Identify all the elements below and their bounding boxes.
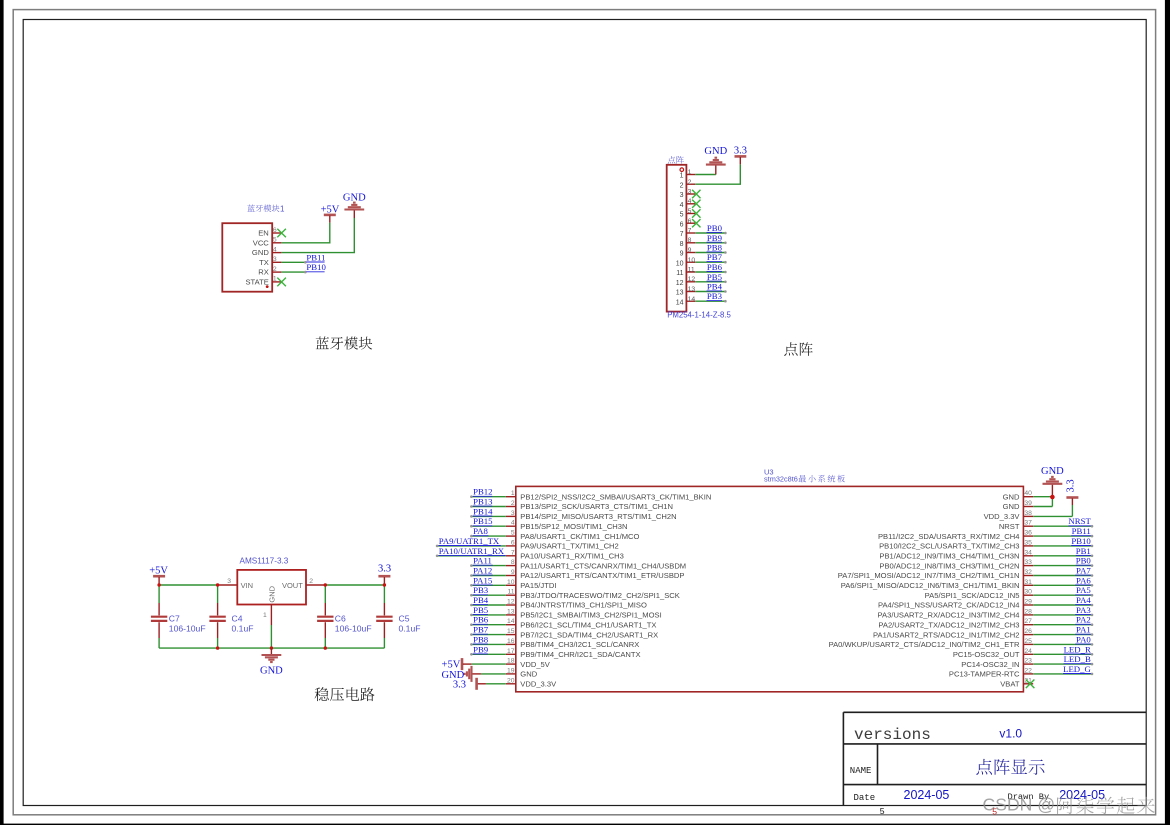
svg-text:NRST: NRST bbox=[1068, 516, 1091, 526]
svg-text:PB8: PB8 bbox=[707, 243, 723, 253]
wire +5V rail to VIN bbox=[159, 584, 217, 586]
svg-text:PB9/TIM4_CHR/I2C1_SDA/CANTX: PB9/TIM4_CHR/I2C1_SDA/CANTX bbox=[520, 650, 640, 659]
svg-text:PA11: PA11 bbox=[473, 556, 492, 566]
svg-text:11: 11 bbox=[676, 270, 683, 277]
U3 pin 39 (GND) bbox=[1003, 497, 1053, 511]
U3 pin 2 wire and net label PB13 bbox=[470, 497, 673, 512]
U3 body bbox=[516, 486, 1024, 691]
svg-text:12: 12 bbox=[507, 599, 515, 606]
svg-text:18: 18 bbox=[507, 658, 515, 665]
svg-text:13: 13 bbox=[688, 286, 696, 293]
svg-text:v1.0: v1.0 bbox=[999, 726, 1022, 740]
svg-text:PA6: PA6 bbox=[1076, 575, 1091, 585]
svg-text:14: 14 bbox=[676, 299, 684, 306]
capacitor C7 106-10uF bbox=[151, 585, 206, 648]
svg-text:PB7: PB7 bbox=[473, 625, 489, 635]
svg-text:1: 1 bbox=[263, 612, 267, 619]
svg-text:4: 4 bbox=[680, 202, 684, 209]
svg-text:1: 1 bbox=[688, 169, 692, 176]
svg-text:1: 1 bbox=[680, 173, 684, 180]
点阵 pin 1 bbox=[680, 169, 696, 180]
svg-text:GND: GND bbox=[704, 146, 727, 157]
U3 pin 4 wire and net label PB15 bbox=[470, 516, 627, 531]
ground symbol GND (dot matrix) bbox=[704, 146, 727, 174]
no-connect X on STATE bbox=[277, 278, 286, 287]
svg-text:PB6: PB6 bbox=[707, 262, 723, 272]
U3 pin 10 wire and net label PA15 bbox=[470, 575, 556, 590]
pin 3 VIN stub bbox=[217, 584, 237, 586]
svg-text:30: 30 bbox=[1024, 589, 1032, 596]
svg-text:33: 33 bbox=[1024, 559, 1032, 566]
svg-text:RX: RX bbox=[258, 268, 269, 277]
svg-text:STATE: STATE bbox=[245, 278, 268, 287]
svg-text:PB6/I2C1_SCL/TIM4_CH1/USART1_T: PB6/I2C1_SCL/TIM4_CH1/USART1_TX bbox=[520, 620, 656, 629]
U3 pin 5 wire and net label PA8 bbox=[470, 526, 639, 541]
regulator U? AMS1117-3.3 body bbox=[237, 570, 306, 605]
P1 pin 2 (RX) bbox=[258, 266, 281, 277]
svg-text:PA10/UATR1_RX: PA10/UATR1_RX bbox=[439, 546, 505, 556]
junction 3.3/C5 bbox=[383, 583, 386, 586]
svg-text:3: 3 bbox=[273, 256, 277, 263]
U3 pin 16 wire and net label PB8 bbox=[470, 634, 639, 649]
svg-text:PB5/I2C1_SMBAI/TIM3_CH2/SPI1_M: PB5/I2C1_SMBAI/TIM3_CH2/SPI1_MOSI bbox=[520, 611, 661, 620]
svg-text:PB14: PB14 bbox=[473, 506, 493, 516]
U3 pin 35 (PB10) bbox=[879, 536, 1093, 551]
power flag +5V (bluetooth) bbox=[321, 204, 340, 222]
svg-text:PB3: PB3 bbox=[707, 291, 723, 301]
svg-text:PB4/JNTRST/TIM3_CH1/SPI1_MISO: PB4/JNTRST/TIM3_CH1/SPI1_MISO bbox=[520, 601, 647, 610]
点阵 pin 8 bbox=[680, 237, 696, 248]
junction U3 GND pins bbox=[1050, 495, 1055, 500]
svg-text:9: 9 bbox=[511, 569, 515, 576]
U3 pin 9 wire and net label PA12 bbox=[470, 566, 684, 581]
点阵 pin 12 bbox=[676, 276, 696, 287]
wire and net label PB5 (点阵 pin 12) bbox=[695, 272, 726, 283]
svg-text:7: 7 bbox=[511, 549, 515, 556]
点阵 pin 2 bbox=[680, 179, 696, 190]
P1 pin 3 (TX) bbox=[259, 256, 281, 267]
svg-text:PC14-OSC32_IN: PC14-OSC32_IN bbox=[961, 660, 1019, 669]
点阵 pin 7 bbox=[680, 228, 696, 239]
svg-text:EN: EN bbox=[258, 229, 269, 238]
svg-text:PC15-OSC32_OUT: PC15-OSC32_OUT bbox=[953, 650, 1020, 659]
no-connect X on 点阵 pin 4 bbox=[692, 200, 700, 208]
点阵 pin 13 bbox=[676, 286, 696, 297]
svg-text:PA2: PA2 bbox=[1076, 615, 1091, 625]
U3 pin 7 wire and net label PA10/UATR1_RX bbox=[436, 546, 624, 561]
svg-text:10: 10 bbox=[507, 579, 515, 586]
svg-text:37: 37 bbox=[1024, 520, 1032, 527]
svg-text:+5V: +5V bbox=[321, 204, 340, 215]
wire and net label PB0 (点阵 pin 7) bbox=[695, 223, 726, 234]
label stm32c8t6最小系统板 bbox=[764, 475, 845, 484]
title block name 点阵显示 bbox=[976, 759, 1044, 775]
U3 pin 24 (LED_R) bbox=[953, 644, 1093, 659]
svg-text:9: 9 bbox=[688, 247, 692, 254]
svg-text:GND: GND bbox=[343, 193, 366, 204]
svg-text:32: 32 bbox=[1024, 569, 1032, 576]
svg-text:PA3/USART2_RX/ADC12_IN3/TIM2_C: PA3/USART2_RX/ADC12_IN3/TIM2_CH4 bbox=[878, 611, 1020, 620]
点阵 pin 3 bbox=[680, 189, 696, 200]
svg-text:14: 14 bbox=[688, 296, 696, 303]
wire pin1 to GND bbox=[695, 174, 716, 176]
P1 pin 4 (GND) bbox=[252, 246, 281, 257]
svg-text:16: 16 bbox=[507, 638, 515, 645]
label 蓝牙模块1 bbox=[247, 204, 285, 213]
svg-text:GND: GND bbox=[520, 670, 537, 679]
svg-text:PA6/SPI1_MISO/ADC12_IN6/TIM3_C: PA6/SPI1_MISO/ADC12_IN6/TIM3_CH1/TIM1_BK… bbox=[841, 581, 1020, 590]
svg-text:C6: C6 bbox=[335, 614, 346, 624]
svg-text:PA5/SPI1_SCK/ADC12_IN5: PA5/SPI1_SCK/ADC12_IN5 bbox=[925, 591, 1020, 600]
svg-text:PB0/ADC12_IN8/TIM3_CH3/TIM1_CH: PB0/ADC12_IN8/TIM3_CH3/TIM1_CH2N bbox=[879, 561, 1019, 570]
svg-text:PA4/SPI1_NSS/USART2_CK/ADC12_I: PA4/SPI1_NSS/USART2_CK/ADC12_IN4 bbox=[878, 601, 1020, 610]
wire GND pin down bbox=[270, 625, 272, 648]
svg-text:3.3: 3.3 bbox=[1066, 479, 1077, 492]
svg-text:PB11: PB11 bbox=[1072, 526, 1091, 536]
svg-text:23: 23 bbox=[1024, 658, 1032, 665]
svg-text:PC13-TAMPER-RTC: PC13-TAMPER-RTC bbox=[949, 670, 1020, 679]
U3 pin 27 (PA2) bbox=[878, 615, 1093, 630]
net label PB10 (bluetooth RX) bbox=[306, 262, 326, 272]
svg-text:GND: GND bbox=[267, 585, 276, 602]
svg-text:3.3: 3.3 bbox=[734, 146, 747, 157]
svg-text:24: 24 bbox=[1024, 648, 1032, 655]
svg-text:19: 19 bbox=[507, 667, 515, 674]
no-connect X on 点阵 pin 3 bbox=[692, 190, 700, 198]
svg-text:PA4: PA4 bbox=[1076, 595, 1091, 605]
svg-text:8: 8 bbox=[680, 241, 684, 248]
svg-text:PB11/I2C2_SDA/USART3_RX/TIM2_C: PB11/I2C2_SDA/USART3_RX/TIM2_CH4 bbox=[878, 532, 1020, 541]
P1 pin1 marker dot bbox=[266, 285, 269, 288]
svg-text:+5V: +5V bbox=[442, 660, 461, 671]
svg-text:VOUT: VOUT bbox=[282, 581, 303, 590]
watermark CSDN @阿柒学起来 bbox=[983, 794, 1155, 814]
svg-text:VDD_5V: VDD_5V bbox=[520, 660, 550, 669]
svg-text:0.1uF: 0.1uF bbox=[399, 624, 421, 634]
U3 pin 28 (PA3) bbox=[878, 605, 1094, 620]
svg-text:11: 11 bbox=[688, 267, 695, 274]
svg-text:PA5: PA5 bbox=[1076, 585, 1091, 595]
svg-text:2: 2 bbox=[273, 266, 277, 273]
power flag 3.3 (dot matrix) bbox=[734, 146, 747, 165]
U3 pin 13 wire and net label PB5 bbox=[470, 605, 662, 620]
svg-text:29: 29 bbox=[1024, 599, 1032, 606]
U3 pin 15 wire and net label PB7 bbox=[470, 625, 658, 640]
svg-text:PA9/USART1_TX/TIM1_CH2: PA9/USART1_TX/TIM1_CH2 bbox=[520, 542, 618, 551]
svg-text:31: 31 bbox=[1024, 579, 1032, 586]
svg-text:2024-05: 2024-05 bbox=[904, 788, 950, 802]
svg-text:3.3: 3.3 bbox=[378, 564, 391, 575]
svg-text:PB10: PB10 bbox=[1071, 536, 1091, 546]
svg-text:13: 13 bbox=[676, 290, 684, 297]
U3 pin 3 wire and net label PB14 bbox=[470, 506, 676, 521]
svg-text:PA1/USART2_RTS/ADC12_IN1/TIM2_: PA1/USART2_RTS/ADC12_IN1/TIM2_CH2 bbox=[873, 630, 1019, 639]
点阵 pin 5 bbox=[680, 208, 696, 219]
svg-text:106-10uF: 106-10uF bbox=[169, 624, 206, 634]
svg-text:PA7/SPI1_MOSI/ADC12_IN7/TIM3_C: PA7/SPI1_MOSI/ADC12_IN7/TIM3_CH2/TIM1_CH… bbox=[838, 571, 1020, 580]
svg-text:PB13: PB13 bbox=[473, 497, 493, 507]
svg-text:stm32c8t6: stm32c8t6 bbox=[764, 475, 798, 484]
wire and net label PB3 (点阵 pin 14) bbox=[695, 291, 726, 302]
svg-text:5: 5 bbox=[511, 530, 515, 537]
svg-text:5: 5 bbox=[273, 237, 277, 244]
wire TX net bbox=[281, 261, 305, 263]
svg-text:10: 10 bbox=[676, 260, 684, 267]
svg-text:27: 27 bbox=[1024, 618, 1032, 625]
svg-text:Date: Date bbox=[854, 793, 876, 803]
junction +5V/C7 bbox=[157, 583, 160, 586]
svg-text:VCC: VCC bbox=[253, 238, 270, 247]
svg-text:5: 5 bbox=[688, 208, 692, 215]
svg-text:PB12/SPI2_NSS/I2C2_SMBAI/USART: PB12/SPI2_NSS/I2C2_SMBAI/USART3_CK/TIM1_… bbox=[520, 492, 711, 501]
svg-text:VBAT: VBAT bbox=[1000, 680, 1020, 689]
svg-text:AMS1117-3.3: AMS1117-3.3 bbox=[240, 556, 289, 565]
section title 点阵 bbox=[784, 342, 813, 356]
svg-text:PA0/WKUP/USART2_CTS/ADC12_IN0/: PA0/WKUP/USART2_CTS/ADC12_IN0/TIM2_CH1_E… bbox=[829, 640, 1020, 649]
U3 pin 40 (GND) bbox=[1003, 490, 1053, 501]
U3 pin 17 wire and net label PB9 bbox=[470, 644, 640, 659]
wire VCC to +5V bbox=[281, 223, 329, 243]
wire RX net bbox=[281, 271, 305, 273]
svg-text:PB7: PB7 bbox=[707, 252, 723, 262]
svg-text:3: 3 bbox=[680, 192, 684, 199]
U3 pin 21 (VBAT) bbox=[1000, 677, 1034, 688]
svg-text:2: 2 bbox=[511, 500, 515, 507]
svg-text:PB11: PB11 bbox=[306, 252, 325, 262]
svg-text:5: 5 bbox=[680, 212, 684, 219]
svg-text:3: 3 bbox=[511, 510, 515, 517]
svg-text:9: 9 bbox=[680, 251, 684, 258]
svg-text:PA0: PA0 bbox=[1076, 634, 1091, 644]
svg-text:1: 1 bbox=[511, 490, 515, 497]
svg-text:+5V: +5V bbox=[149, 565, 168, 576]
U3 pin 11 wire and net label PB3 bbox=[470, 585, 680, 600]
svg-text:PB1: PB1 bbox=[1076, 546, 1091, 556]
svg-text:NRST: NRST bbox=[999, 522, 1020, 531]
no-connect X on 点阵 pin 6 bbox=[692, 219, 700, 227]
U3 pin 29 (PA4) bbox=[878, 595, 1093, 610]
svg-text:PB0: PB0 bbox=[707, 223, 723, 233]
svg-text:PB4: PB4 bbox=[707, 282, 723, 292]
svg-text:2: 2 bbox=[680, 182, 684, 189]
svg-text:GND: GND bbox=[1003, 492, 1020, 501]
U3 pin 37 (NRST) bbox=[999, 516, 1093, 531]
page border right black band bbox=[1165, 0, 1170, 825]
svg-text:PA9/UATR1_TX: PA9/UATR1_TX bbox=[439, 536, 500, 546]
svg-text:28: 28 bbox=[1024, 608, 1032, 615]
pin 1 GND stub bbox=[270, 605, 272, 626]
P1 pin 5 (VCC) bbox=[253, 237, 282, 248]
wire and net label PB6 (点阵 pin 11) bbox=[695, 262, 726, 273]
svg-text:C4: C4 bbox=[232, 614, 243, 624]
svg-text:7: 7 bbox=[680, 231, 684, 238]
svg-text:GND: GND bbox=[1003, 502, 1020, 511]
svg-text:4: 4 bbox=[511, 520, 515, 527]
no-connect X on EN bbox=[277, 229, 286, 238]
P1 pin 1 (STATE) bbox=[245, 276, 281, 287]
svg-text:PA8: PA8 bbox=[473, 526, 488, 536]
svg-text:C5: C5 bbox=[399, 614, 410, 624]
svg-text:106-10uF: 106-10uF bbox=[335, 624, 372, 634]
wire and net label PB8 (点阵 pin 9) bbox=[695, 243, 726, 254]
svg-text:PA1: PA1 bbox=[1076, 625, 1091, 635]
svg-text:3: 3 bbox=[227, 578, 231, 585]
U3 pin 6 wire and net label PA9/UATR1_TX bbox=[436, 536, 619, 551]
svg-text:PA10/USART1_RX/TIM1_CH3: PA10/USART1_RX/TIM1_CH3 bbox=[520, 552, 624, 561]
U3 pin 1 wire and net label PB12 bbox=[470, 487, 711, 502]
svg-text:7: 7 bbox=[688, 228, 692, 235]
svg-text:PB3: PB3 bbox=[473, 585, 489, 595]
U3 pin 34 (PB1) bbox=[879, 546, 1093, 561]
svg-text:35: 35 bbox=[1024, 539, 1032, 546]
U3 pin 38 (VDD_3.3V) bbox=[984, 505, 1073, 521]
junction VOUT/C6 bbox=[324, 583, 327, 586]
点阵 pin 9 bbox=[680, 247, 696, 258]
svg-text:14: 14 bbox=[507, 618, 515, 625]
no-connect X on 点阵 pin 5 bbox=[692, 209, 700, 217]
svg-text:4: 4 bbox=[273, 246, 277, 253]
junction C4 bottom bbox=[216, 646, 219, 649]
svg-text:26: 26 bbox=[1024, 628, 1032, 635]
svg-text:6: 6 bbox=[511, 539, 515, 546]
svg-text:PB8/TIM4_CH3/I2C1_SCL/CANRX: PB8/TIM4_CH3/I2C1_SCL/CANRX bbox=[520, 640, 639, 649]
wire and net label PB9 (点阵 pin 8) bbox=[695, 233, 726, 244]
svg-text:22: 22 bbox=[1024, 667, 1032, 674]
svg-text:3.3: 3.3 bbox=[453, 680, 466, 691]
U3 pin 22 (LED_G) bbox=[949, 664, 1093, 679]
svg-text:PB9: PB9 bbox=[707, 233, 723, 243]
power flag 3.3 (U3 right) bbox=[1066, 479, 1079, 505]
svg-text:PB8: PB8 bbox=[473, 634, 489, 644]
svg-text:0.1uF: 0.1uF bbox=[232, 624, 254, 634]
svg-text:VDD_3.3V: VDD_3.3V bbox=[984, 512, 1021, 521]
junction GND bottom bbox=[270, 646, 273, 649]
svg-text:PB14/SPI2_MISO/USART3_RTS/TIM1: PB14/SPI2_MISO/USART3_RTS/TIM1_CH2N bbox=[520, 512, 676, 521]
bottom ground rail wire bbox=[159, 647, 384, 649]
svg-text:13: 13 bbox=[507, 608, 515, 615]
svg-text:NAME: NAME bbox=[850, 766, 872, 776]
U3 pin 36 (PB11) bbox=[878, 526, 1093, 541]
power flag +5V (regulator) bbox=[149, 565, 168, 585]
svg-text:12: 12 bbox=[688, 276, 696, 283]
svg-text:PB10: PB10 bbox=[306, 262, 326, 272]
svg-text:LED_G: LED_G bbox=[1063, 664, 1091, 674]
section title 稳压电路 bbox=[315, 687, 375, 701]
label 点阵 (connector name) bbox=[668, 156, 684, 164]
ground symbol GND (bluetooth) bbox=[343, 193, 366, 219]
svg-text:PB13/SPI2_SCK/USART3_CTS/TIM1_: PB13/SPI2_SCK/USART3_CTS/TIM1_CH1N bbox=[520, 502, 673, 511]
svg-text:2: 2 bbox=[309, 578, 313, 585]
svg-text:C7: C7 bbox=[169, 614, 180, 624]
svg-text:PB3/JTDO/TRACESWO/TIM2_CH2/SPI: PB3/JTDO/TRACESWO/TIM2_CH2/SPI1_SCK bbox=[520, 591, 680, 600]
svg-text:VDD_3.3V: VDD_3.3V bbox=[520, 680, 557, 689]
svg-text:20: 20 bbox=[507, 677, 515, 684]
svg-text:6: 6 bbox=[273, 227, 277, 234]
svg-text:PA7: PA7 bbox=[1076, 566, 1091, 576]
wire pin2 to 3.3 bbox=[695, 164, 740, 184]
ground symbol GND (regulator) bbox=[260, 648, 283, 676]
svg-text:PB5: PB5 bbox=[473, 605, 489, 615]
svg-text:PA12/USART1_RTS/CANTX/TIM1_ETR: PA12/USART1_RTS/CANTX/TIM1_ETR/USBDP bbox=[520, 571, 684, 580]
点阵 pin 11 bbox=[676, 267, 695, 278]
svg-text:38: 38 bbox=[1024, 510, 1032, 517]
junction C4/VIN bbox=[216, 583, 219, 586]
svg-text:PA3: PA3 bbox=[1076, 605, 1091, 615]
title block grid bbox=[843, 712, 1146, 805]
U3 pin 12 wire and net label PB4 bbox=[470, 595, 647, 610]
power flag 3.3 (regulator) bbox=[378, 564, 391, 585]
svg-text:1: 1 bbox=[273, 276, 277, 283]
svg-text:PA15/JTDI: PA15/JTDI bbox=[520, 581, 556, 590]
svg-text:PB7/I2C1_SDA/TIM4_CH2/USART1_R: PB7/I2C1_SDA/TIM4_CH2/USART1_RX bbox=[520, 630, 658, 639]
svg-text:GND: GND bbox=[260, 665, 283, 676]
svg-text:PB1/ADC12_IN9/TIM3_CH4/TIM1_CH: PB1/ADC12_IN9/TIM3_CH4/TIM1_CH3N bbox=[879, 552, 1019, 561]
U3 pin 19 GND with ground flag bbox=[441, 666, 537, 682]
svg-text:VIN: VIN bbox=[241, 581, 254, 590]
svg-text:6: 6 bbox=[680, 221, 684, 228]
svg-text:GND: GND bbox=[252, 248, 269, 257]
U3 pin 32 (PA7) bbox=[838, 566, 1094, 581]
svg-text:PB0: PB0 bbox=[1076, 556, 1092, 566]
svg-text:40: 40 bbox=[1024, 490, 1032, 497]
svg-text:TX: TX bbox=[259, 258, 269, 267]
svg-text:3: 3 bbox=[688, 189, 692, 196]
wire VOUT rail to 3.3 bbox=[325, 584, 384, 586]
section title 蓝牙模块 bbox=[316, 336, 373, 349]
点阵 pin 4 bbox=[680, 198, 696, 209]
capacitor C5 0.1uF bbox=[376, 585, 420, 648]
svg-text:6: 6 bbox=[688, 218, 692, 225]
svg-text:17: 17 bbox=[507, 648, 515, 655]
svg-text:36: 36 bbox=[1024, 530, 1032, 537]
pin 2 VOUT stub bbox=[306, 584, 325, 586]
svg-text:2: 2 bbox=[688, 179, 692, 186]
svg-text:5: 5 bbox=[880, 806, 885, 816]
svg-text:12: 12 bbox=[676, 280, 684, 287]
svg-text:PM254-1-14-Z-8.5: PM254-1-14-Z-8.5 bbox=[667, 311, 731, 320]
svg-text:PB12: PB12 bbox=[473, 487, 492, 497]
connector P1 蓝牙模块1 body bbox=[222, 223, 272, 292]
U3 pin 14 wire and net label PB6 bbox=[470, 615, 656, 630]
wire and net label PB4 (点阵 pin 13) bbox=[695, 282, 726, 293]
junction C6 bottom bbox=[324, 646, 327, 649]
svg-text:versions: versions bbox=[854, 726, 931, 744]
svg-text:34: 34 bbox=[1024, 549, 1032, 556]
svg-text:25: 25 bbox=[1024, 638, 1032, 645]
net label PB11 (bluetooth TX) bbox=[306, 252, 325, 262]
svg-text:1: 1 bbox=[280, 204, 285, 213]
connector pin1 marker circle bbox=[680, 168, 684, 172]
capacitor C4 0.1uF bbox=[209, 585, 253, 648]
page border bottom black line bbox=[0, 824, 1170, 825]
U3 pin 23 (LED_B) bbox=[961, 654, 1093, 669]
wire and net label PB7 (点阵 pin 10) bbox=[695, 252, 726, 263]
svg-text:GND: GND bbox=[1041, 466, 1064, 477]
svg-text:PB5: PB5 bbox=[707, 272, 723, 282]
page border left black band bbox=[0, 0, 4, 825]
svg-text:PB15/SP12_MOSI/TIM1_CH3N: PB15/SP12_MOSI/TIM1_CH3N bbox=[520, 522, 627, 531]
U3 pin 26 (PA1) bbox=[873, 625, 1093, 640]
svg-text:PB4: PB4 bbox=[473, 595, 489, 605]
svg-text:PB6: PB6 bbox=[473, 615, 489, 625]
svg-text:PA11/USART1_CTS/CANRX/TIM1_CH4: PA11/USART1_CTS/CANRX/TIM1_CH4/USBDM bbox=[520, 561, 686, 570]
svg-text:4: 4 bbox=[688, 198, 692, 205]
svg-text:PB9: PB9 bbox=[473, 644, 489, 654]
svg-text:LED_R: LED_R bbox=[1064, 644, 1091, 654]
svg-text:PA8/USART1_CK/TIM1_CH1/MCO: PA8/USART1_CK/TIM1_CH1/MCO bbox=[520, 532, 639, 541]
svg-text:5: 5 bbox=[992, 806, 997, 816]
svg-text:PB10/I2C2_SCL/USART3_TX/TIM2_C: PB10/I2C2_SCL/USART3_TX/TIM2_CH3 bbox=[879, 542, 1019, 551]
